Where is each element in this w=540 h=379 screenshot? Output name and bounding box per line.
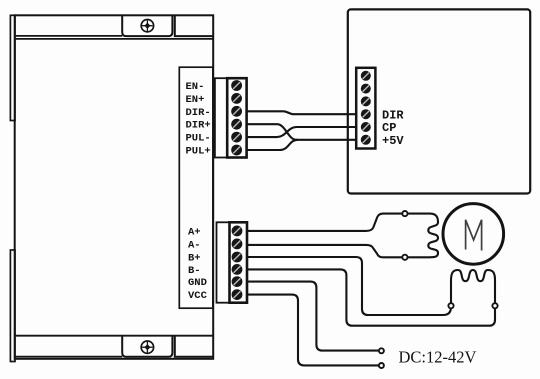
- svg-text:PUL-: PUL-: [186, 133, 211, 145]
- svg-text:PUL+: PUL+: [186, 146, 211, 158]
- driver top right tab: [175, 15, 213, 36]
- DC supply terminal circle bottom: [379, 363, 384, 368]
- driver bottom panel line: [15, 335, 214, 337]
- wire PUL- to CP: [247, 127, 357, 137]
- driver label panel: [179, 67, 213, 308]
- driver top screw tab: [122, 15, 172, 36]
- DC supply terminal circle top: [379, 348, 384, 353]
- driver top panel line: [15, 38, 214, 40]
- svg-text:DIR-: DIR-: [186, 107, 211, 119]
- mounting screw bottom: cross slot: [142, 342, 153, 353]
- svg-text:VCC: VCC: [188, 290, 208, 302]
- wire phase A with motor coil A: [247, 214, 438, 258]
- svg-text:EN+: EN+: [186, 94, 205, 106]
- wire PUL+ joining +5V line: [247, 140, 298, 150]
- controller terminal block: [356, 68, 375, 149]
- wire GND to DC supply: [247, 282, 379, 351]
- power connector screw block J2: [230, 222, 248, 302]
- mounting screw bottom: circle: [141, 341, 153, 353]
- driver bottom mounting strip lower edge: [15, 356, 123, 358]
- driver top mounting strip bottom edge: [15, 35, 123, 37]
- driver bottom screw tab: [122, 336, 172, 357]
- driver left heatsink flange top segment: [10, 15, 15, 120]
- svg-text:+5V: +5V: [382, 134, 404, 148]
- motor M circle: [443, 204, 504, 265]
- controller box: [348, 9, 530, 193]
- svg-text:A-: A-: [188, 239, 201, 251]
- signal connector body J1: [215, 78, 227, 157]
- coil B pin circle right: [492, 303, 497, 308]
- coil B pin circle left: [448, 303, 453, 308]
- coil A pin circle bottom: [402, 255, 407, 260]
- svg-text:A+: A+: [188, 226, 201, 238]
- motor letter M: [466, 220, 482, 251]
- svg-text:DIR+: DIR+: [186, 120, 211, 132]
- driver left heatsink flange bottom segment: [10, 250, 15, 362]
- power connector body J2: [217, 222, 230, 302]
- svg-text:GND: GND: [188, 277, 207, 289]
- terminal screws driver J2: [232, 226, 243, 301]
- wire DIR- to DIR: [247, 111, 357, 114]
- wire DIR+ to +5V: [247, 124, 357, 140]
- wire phase B with motor coil B: [247, 257, 495, 326]
- mounting screw top: circle: [141, 20, 153, 32]
- svg-text:EN-: EN-: [186, 81, 205, 93]
- coil A pin circle top: [402, 211, 407, 216]
- stepper driver outer case: [15, 15, 214, 359]
- svg-text:DC:12-42V: DC:12-42V: [399, 347, 477, 366]
- mounting screw top: cross slot: [142, 20, 153, 31]
- terminal screws controller: [361, 71, 371, 145]
- signal connector screw block J1: [227, 78, 246, 157]
- svg-text:B-: B-: [188, 265, 201, 277]
- terminal screws driver J1: [231, 80, 242, 155]
- driver bottom right tab divider: [175, 336, 213, 357]
- svg-text:B+: B+: [188, 253, 201, 265]
- wire VCC to DC supply: [247, 295, 379, 366]
